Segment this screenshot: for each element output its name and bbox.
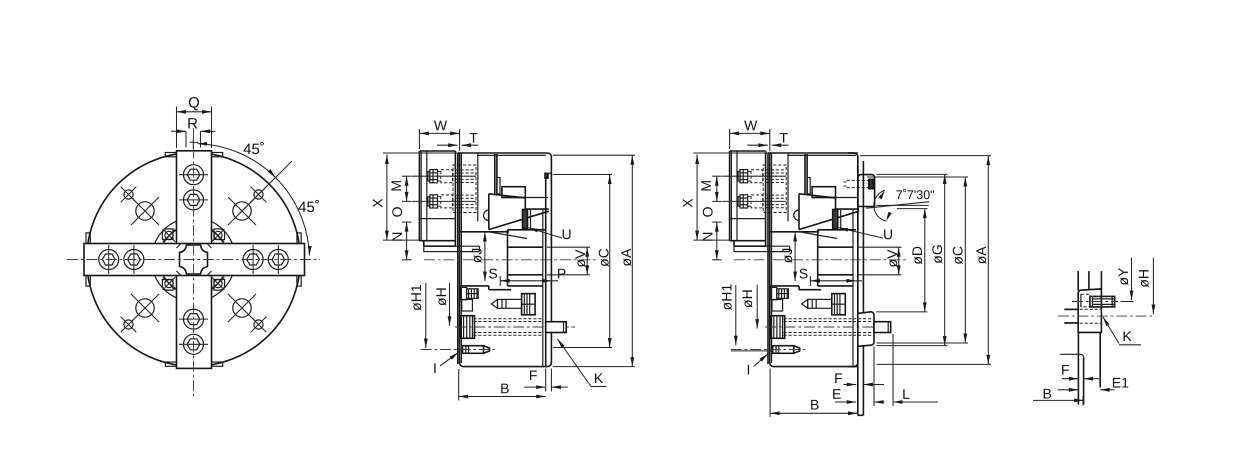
dimension oJ bbox=[484, 232, 486, 281]
upper guide rail bbox=[770, 231, 819, 233]
svg-text:K: K bbox=[594, 370, 604, 386]
svg-text:P: P bbox=[557, 265, 566, 281]
center boss bbox=[817, 230, 819, 286]
angle 7-7-30 arc bbox=[874, 190, 886, 221]
tapped hole 1 bbox=[136, 202, 154, 220]
svg-text:øH1: øH1 bbox=[408, 284, 424, 311]
vertical jaw screw 2 bbox=[184, 190, 204, 210]
dimension S view3 bbox=[809, 276, 811, 286]
wedge nut block bbox=[832, 294, 846, 315]
wedge top slant bbox=[799, 194, 836, 198]
hidden T-nut outline bbox=[453, 165, 476, 213]
vertical jaw screw 4 bbox=[184, 334, 204, 354]
adapter plate bbox=[857, 161, 859, 312]
jaw mounting screws bbox=[412, 175, 476, 177]
dimension oD bbox=[897, 208, 928, 210]
dimension oH view4 bbox=[1152, 258, 1154, 314]
tube below bbox=[1077, 332, 1079, 404]
tapped hole 4 bbox=[233, 299, 251, 317]
svg-text:45˚: 45˚ bbox=[243, 141, 265, 158]
bolt centerline bbox=[455, 326, 575, 328]
horizontal jaw screw 3 bbox=[243, 250, 263, 270]
svg-text:øH: øH bbox=[433, 287, 449, 306]
jaw insert boundary bbox=[426, 151, 428, 241]
dimension B view4 bbox=[1033, 399, 1084, 401]
scroll boss circle (behind jaws) bbox=[160, 226, 228, 294]
dimension oY bbox=[1131, 258, 1133, 300]
vertical jaw screw 3 bbox=[184, 309, 204, 329]
body front face bbox=[767, 153, 769, 364]
wedge diagonal bbox=[489, 211, 549, 229]
lower guide rail bbox=[460, 285, 489, 287]
svg-text:O: O bbox=[699, 206, 715, 217]
svg-text:S: S bbox=[488, 265, 497, 281]
svg-text:B: B bbox=[500, 380, 509, 396]
svg-text:E1: E1 bbox=[1112, 374, 1129, 390]
svg-text:U: U bbox=[883, 226, 893, 242]
horizontal jaw screw 1 bbox=[99, 250, 119, 270]
body bottom edge bbox=[770, 363, 858, 367]
jaw guide tabs at rim bbox=[165, 153, 176, 157]
adapter flange tab bbox=[858, 312, 874, 347]
dimension oC view2 bbox=[553, 174, 612, 176]
svg-text:O: O bbox=[389, 206, 405, 217]
svg-text:T: T bbox=[779, 130, 788, 146]
svg-text:øJ: øJ bbox=[469, 248, 485, 264]
piston plate bbox=[502, 187, 525, 198]
jaw guide tongue bbox=[734, 246, 770, 251]
SECTION VIEW 2: plain back mount bbox=[369, 117, 635, 400]
svg-text:øV: øV bbox=[884, 249, 900, 268]
svg-text:øA: øA bbox=[973, 246, 989, 265]
angle 7-7-30 lines bbox=[877, 204, 929, 206]
body top edge bbox=[768, 152, 858, 154]
jaw block outline bbox=[730, 150, 766, 152]
center boss bbox=[507, 230, 509, 286]
dimension F view2 bbox=[545, 369, 547, 392]
dimension M view3 bbox=[712, 175, 722, 177]
jaw step line bbox=[419, 218, 455, 220]
dimension M bbox=[402, 175, 412, 177]
wedge top slant bbox=[489, 194, 526, 198]
adjust screw bbox=[802, 299, 808, 308]
svg-text:7˚7'30": 7˚7'30" bbox=[896, 188, 935, 202]
leader U view3 bbox=[839, 228, 883, 238]
sleeve line bbox=[542, 209, 544, 366]
jaw insert boundary bbox=[736, 151, 738, 241]
wedge gib (dark) bbox=[523, 210, 528, 229]
dimension T view3 bbox=[747, 144, 768, 146]
45 deg arc 1 bbox=[198, 144, 276, 178]
mounting bolt hidden shank bbox=[784, 318, 854, 320]
shared section geometry bbox=[412, 151, 575, 367]
clamp block top bbox=[858, 175, 875, 207]
dimension oJ view3 bbox=[794, 232, 796, 281]
clamp bolt view4 bbox=[1090, 296, 1115, 307]
stud centerline bbox=[731, 349, 806, 351]
svg-text:øC: øC bbox=[950, 246, 966, 265]
cover plate line bbox=[477, 154, 546, 156]
tapped hole 3 bbox=[136, 299, 154, 317]
dimension E1 bbox=[1058, 389, 1078, 391]
svg-text:øC: øC bbox=[595, 248, 611, 267]
shared section geometry shifted bbox=[722, 151, 885, 367]
svg-text:X: X bbox=[680, 198, 696, 208]
dimension W bbox=[418, 129, 420, 149]
svg-text:B: B bbox=[810, 396, 819, 412]
dimension oG bbox=[877, 173, 948, 175]
svg-text:R: R bbox=[187, 115, 198, 132]
tube walls above bbox=[1077, 271, 1079, 290]
lower guide rail bbox=[770, 285, 799, 287]
svg-text:øV: øV bbox=[572, 249, 588, 268]
body bottom edge bbox=[460, 363, 548, 367]
svg-text:E: E bbox=[832, 386, 841, 402]
piston narrow rib bbox=[497, 178, 500, 194]
mounting bolt hidden shank bbox=[473, 318, 543, 320]
front rod line bbox=[477, 153, 479, 221]
wedge nut block bbox=[522, 294, 536, 315]
pinion shaft lower bbox=[462, 299, 473, 311]
dimension oH1 view2 bbox=[425, 283, 427, 348]
svg-text:W: W bbox=[434, 117, 448, 133]
DETAIL VIEW 4: adapter detail bbox=[1033, 258, 1155, 406]
front rod line bbox=[787, 153, 789, 221]
dimension L bbox=[892, 334, 894, 406]
leader I view2 bbox=[440, 353, 458, 367]
view1 vertical centerline bbox=[193, 128, 195, 396]
jaw end chamfer marks bbox=[177, 243, 182, 248]
svg-text:I: I bbox=[433, 360, 437, 376]
wedge front edge bbox=[488, 194, 490, 230]
horizontal jaw screw 4 bbox=[268, 250, 288, 270]
dimension oC view3 bbox=[867, 176, 968, 178]
dimension F view4 bbox=[1062, 378, 1078, 380]
dimension oH view3 bbox=[756, 285, 758, 329]
svg-text:øH1: øH1 bbox=[718, 284, 734, 311]
center cross piece bbox=[180, 245, 208, 274]
pocket circle (behind jaws) bbox=[152, 218, 236, 302]
locating stud bbox=[463, 346, 484, 354]
svg-text:øY: øY bbox=[1115, 267, 1131, 286]
sleeve line bbox=[852, 209, 854, 366]
body jaw slot bbox=[460, 245, 480, 247]
mounting bolt head bbox=[461, 316, 475, 339]
dimension F view3 bbox=[844, 384, 857, 386]
clamp bolt hidden bbox=[847, 179, 870, 181]
dimension oA view3 bbox=[860, 155, 991, 157]
dimension B view3 bbox=[769, 369, 771, 418]
piston guide lines bbox=[494, 154, 496, 194]
dimension R bbox=[185, 131, 187, 147]
svg-text:L: L bbox=[902, 386, 910, 402]
FRONT VIEW: 4-jaw chuck face bbox=[67, 94, 320, 396]
pinion shaft lower bbox=[772, 299, 783, 311]
svg-text:K: K bbox=[1122, 328, 1132, 344]
svg-text:B: B bbox=[1043, 385, 1052, 401]
jaw block outline bbox=[419, 150, 455, 152]
small mounting hole 1 bbox=[124, 190, 133, 199]
upper guide rail bbox=[460, 231, 509, 233]
hidden T-nut outline bbox=[763, 165, 786, 213]
SECTION VIEW 3: adapter mount bbox=[680, 117, 991, 417]
body jaw slot bbox=[770, 245, 790, 247]
block inner lines bbox=[1080, 294, 1082, 307]
svg-text:F: F bbox=[1061, 362, 1070, 378]
svg-text:øD: øD bbox=[909, 246, 925, 265]
leader K view4 bbox=[1103, 317, 1119, 344]
svg-text:øH: øH bbox=[739, 289, 755, 308]
section centerline view3 bbox=[734, 259, 908, 261]
dimension N bbox=[406, 222, 408, 260]
bolt hidden through tab bbox=[853, 318, 873, 320]
svg-text:øG: øG bbox=[929, 244, 945, 263]
piston plate bbox=[812, 187, 835, 198]
dimension oH view2 bbox=[449, 283, 451, 326]
horizontal jaw (white over circle) bbox=[84, 244, 305, 276]
dimension oA view2 bbox=[553, 154, 635, 156]
small mounting hole 2 bbox=[254, 190, 263, 199]
chuck body outer circle bbox=[87, 153, 301, 367]
dimension Q bbox=[176, 107, 178, 149]
svg-text:45˚: 45˚ bbox=[298, 199, 320, 216]
pinion bbox=[771, 287, 777, 299]
dimension N view3 bbox=[716, 222, 718, 260]
svg-text:N: N bbox=[700, 232, 716, 242]
svg-text:U: U bbox=[561, 226, 571, 242]
dimension oH1 view3 bbox=[735, 285, 737, 345]
view1 horizontal centerline bbox=[67, 259, 320, 261]
45 deg arc 2 bbox=[276, 178, 310, 256]
svg-text:X: X bbox=[369, 198, 385, 208]
dimension W view3 bbox=[729, 129, 731, 149]
pinion nut square 2 bbox=[214, 229, 225, 240]
dimension B view2 bbox=[458, 369, 460, 401]
wedge diagonal bbox=[799, 211, 859, 229]
mounting bolt head bbox=[771, 316, 785, 339]
dimension E bbox=[873, 347, 875, 407]
piston narrow rib bbox=[807, 178, 810, 194]
bolt centerline view4 bbox=[1072, 301, 1118, 303]
pinion bbox=[461, 287, 467, 299]
dimension oV view3 bbox=[858, 246, 902, 248]
svg-text:I: I bbox=[747, 361, 751, 377]
svg-text:M: M bbox=[388, 180, 404, 192]
svg-text:F: F bbox=[834, 370, 843, 386]
jaw step line bbox=[730, 218, 766, 220]
leader K view2 bbox=[558, 339, 592, 387]
clamp bolt head dark bbox=[869, 179, 873, 188]
vertical jaw screw 1 bbox=[184, 165, 204, 185]
recess lip bbox=[545, 173, 548, 178]
pinion nut square 4 bbox=[214, 280, 225, 291]
body right recess line bbox=[545, 173, 547, 366]
bore centerline bbox=[1058, 315, 1155, 317]
dimension S and P bbox=[499, 276, 501, 286]
svg-text:øJ: øJ bbox=[779, 248, 795, 264]
45 deg reference diagonal bbox=[240, 161, 293, 214]
body back edge bbox=[548, 153, 552, 367]
body back edge view3 bbox=[854, 153, 858, 367]
dimension oV bbox=[547, 246, 590, 248]
leader I view3 bbox=[754, 354, 769, 367]
dimension T bbox=[437, 144, 458, 146]
jaw mounting screws bbox=[722, 175, 786, 177]
svg-text:øA: øA bbox=[618, 248, 634, 267]
tapped hole 2 bbox=[233, 202, 251, 220]
jaw guide tongue bbox=[424, 246, 460, 251]
svg-text:M: M bbox=[698, 180, 714, 192]
pinion nut square 3 bbox=[162, 280, 173, 291]
adapter block bbox=[1078, 289, 1101, 333]
cover plate line bbox=[787, 154, 856, 156]
section centerline view2 bbox=[424, 259, 597, 261]
bolt tip view3 bbox=[874, 322, 891, 333]
small mounting hole 3 bbox=[124, 320, 133, 329]
wedge front edge bbox=[798, 194, 800, 230]
adjust screw bbox=[492, 299, 498, 308]
svg-text:F: F bbox=[529, 367, 538, 383]
stud centerline bbox=[421, 349, 496, 351]
dimension X bbox=[383, 152, 458, 154]
svg-text:Q: Q bbox=[188, 94, 200, 111]
body edge fragment bbox=[1060, 354, 1084, 357]
leader U bbox=[529, 228, 563, 238]
svg-text:T: T bbox=[469, 130, 478, 146]
svg-text:øH: øH bbox=[1136, 269, 1152, 288]
horizontal jaw screw 2 bbox=[124, 250, 144, 270]
svg-text:W: W bbox=[744, 117, 758, 133]
svg-text:N: N bbox=[389, 232, 405, 242]
pinion nut square 1 bbox=[162, 229, 173, 240]
locating stud bbox=[773, 346, 794, 354]
piston guide lines bbox=[804, 154, 806, 194]
body top edge bbox=[458, 152, 548, 154]
bolt tip bbox=[546, 322, 567, 333]
hidden bore bbox=[1065, 308, 1102, 310]
vertical jaw (white over circle) bbox=[177, 151, 212, 369]
body front face bbox=[457, 153, 459, 364]
wedge gib (dark) bbox=[833, 210, 838, 229]
bolt centerline bbox=[765, 326, 885, 328]
dimension X view3 bbox=[693, 152, 768, 154]
small mounting hole 4 bbox=[254, 320, 263, 329]
svg-text:S: S bbox=[799, 265, 808, 281]
